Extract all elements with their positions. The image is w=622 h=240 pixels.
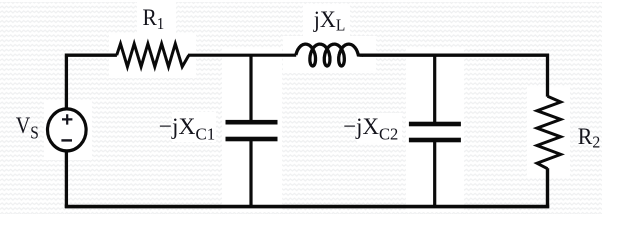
wire: C2 bottom lead to bottom wire: [433, 142, 436, 207]
wire top-left: left vertical + top segment to R1: [66, 55, 117, 108]
voltage source VS circle: [48, 109, 87, 151]
wire top right: inductor to top-right corner, down to R2: [362, 55, 548, 96]
VS plus sign: [62, 114, 72, 124]
resistor R1: [117, 44, 189, 67]
wire: C2 top lead from node on top wire: [433, 55, 436, 123]
wire right-bottom: R2 to bottom-right corner: [546, 168, 549, 208]
VS minus sign: [61, 139, 72, 141]
capacitor C1 top plate: [226, 120, 278, 125]
wire: C1 bottom lead to bottom wire: [249, 141, 252, 207]
wire top middle: R1 to inductor through node C1-top: [188, 54, 296, 57]
inductor L (jXL): [296, 44, 363, 66]
capacitor C2 top plate: [409, 122, 461, 127]
resistor R2: [537, 96, 561, 168]
capacitor C1 bottom plate: [226, 137, 278, 142]
wire left-bottom: VS to bottom-left corner: [65, 151, 68, 208]
wire: C1 top lead from node on top wire: [249, 55, 252, 121]
wire bottom: [65, 205, 549, 209]
capacitor C2 bottom plate: [409, 138, 461, 143]
